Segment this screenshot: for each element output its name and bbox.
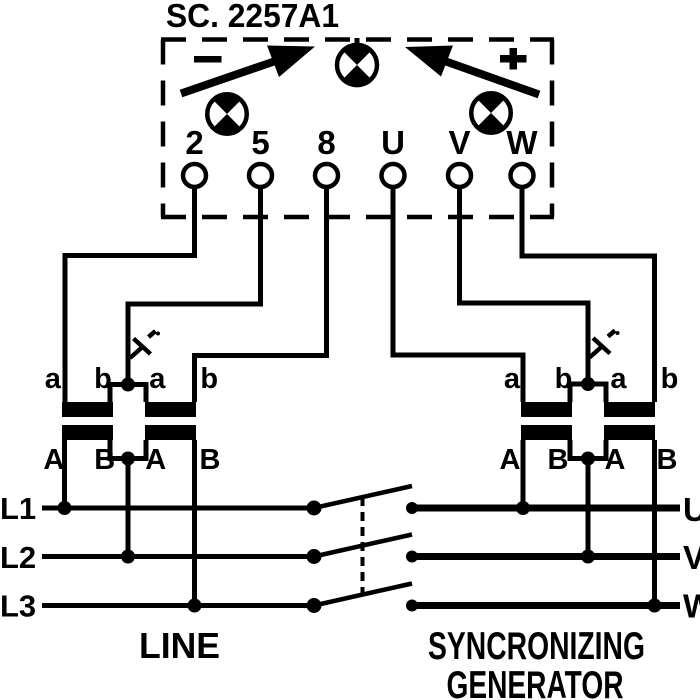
line L3 — [42, 603, 314, 608]
node V-junction — [581, 550, 595, 564]
svg-text:A: A — [43, 444, 64, 476]
T1 junction node top — [121, 378, 135, 392]
plus polarity label — [500, 55, 527, 63]
svg-text:U: U — [683, 491, 700, 528]
lamp P1 (center) — [337, 43, 377, 87]
wire T2 junction to V — [586, 459, 591, 557]
terminal 2 — [183, 164, 206, 187]
svg-text:LINE: LINE — [139, 625, 220, 666]
svg-text:V: V — [683, 539, 700, 576]
wire terminal V to T2 junction b-a — [460, 187, 589, 384]
svg-text:A: A — [500, 444, 521, 476]
lamp P2 (left) — [207, 93, 247, 136]
switch pole 3 blade — [314, 584, 412, 606]
node L2-junction — [121, 550, 135, 564]
svg-text:B: B — [200, 444, 221, 476]
svg-text:V: V — [448, 124, 470, 161]
terminal 8 — [315, 164, 338, 187]
terminal W — [511, 164, 534, 187]
T2 junction node top — [581, 377, 595, 391]
line U — [412, 505, 680, 512]
right arrow — [405, 46, 539, 95]
node W-B — [648, 599, 662, 613]
line W — [412, 602, 680, 609]
wire terminal U to transformer T2 winding a — [393, 187, 523, 402]
line L2 — [42, 554, 314, 559]
svg-text:L3: L3 — [0, 589, 36, 624]
svg-text:L1: L1 — [0, 491, 36, 526]
wire T1 B to L3 — [192, 440, 197, 606]
svg-text:8: 8 — [317, 124, 335, 161]
svg-text:B: B — [548, 444, 569, 476]
svg-text:2: 2 — [185, 124, 203, 161]
svg-text:W: W — [683, 588, 700, 625]
svg-text:B: B — [657, 444, 678, 476]
terminal 5 — [249, 164, 272, 187]
T1 junction node bottom — [121, 452, 135, 466]
svg-text:5: 5 — [251, 124, 269, 161]
wire terminal 8 to T1 winding b — [195, 187, 327, 402]
node L3-B — [188, 599, 202, 613]
break mark on wire 5 — [130, 331, 156, 358]
svg-text:U: U — [381, 124, 405, 161]
wire terminal 5 to T1 junction b-a — [128, 187, 261, 385]
svg-text:SYNCRONIZING: SYNCRONIZING — [428, 625, 645, 668]
node U-A — [516, 501, 530, 515]
lamp stub wire — [355, 38, 360, 46]
svg-text:b: b — [200, 363, 218, 395]
transformer T1 secondary bars — [62, 425, 113, 440]
switch linkage dashed — [361, 497, 365, 597]
svg-text:A: A — [145, 444, 166, 476]
wire T1 A to L1 — [62, 440, 67, 508]
wire T2 A to U — [521, 440, 526, 508]
svg-text:SC. 2257A1: SC. 2257A1 — [166, 0, 339, 34]
switch pole 2 blade — [314, 535, 412, 557]
terminal U — [382, 164, 405, 187]
lamp P3 (right) — [471, 92, 511, 135]
terminal V — [448, 164, 471, 187]
wire T1 junction to L2 — [126, 459, 131, 557]
svg-text:b: b — [661, 363, 679, 395]
svg-text:a: a — [45, 363, 62, 395]
wire terminal 2 to transformer T1 winding a — [65, 187, 195, 402]
node L1-A — [58, 501, 72, 515]
dashed instrument box — [161, 40, 554, 218]
svg-text:B: B — [94, 444, 115, 476]
line L1 — [42, 506, 314, 511]
transformer T1 primary bars — [62, 402, 113, 417]
svg-text:a: a — [504, 363, 521, 395]
switch pole 1 blade — [314, 486, 412, 508]
line V — [412, 553, 680, 560]
wire T2 B to W — [652, 440, 657, 606]
svg-text:L2: L2 — [0, 540, 36, 575]
svg-text:A: A — [605, 444, 626, 476]
T2 junction node bottom — [581, 452, 595, 466]
svg-text:a: a — [610, 363, 627, 395]
minus polarity label — [194, 56, 222, 63]
transformer T2 secondary bars — [521, 425, 572, 440]
svg-text:GENERATOR: GENERATOR — [447, 664, 624, 700]
transformer T2 primary bars — [521, 402, 572, 417]
left arrow — [181, 46, 315, 94]
break mark on wire V — [590, 331, 616, 358]
svg-text:W: W — [506, 124, 538, 161]
wire terminal W to T2 winding b — [522, 187, 655, 402]
svg-text:a: a — [149, 363, 166, 395]
